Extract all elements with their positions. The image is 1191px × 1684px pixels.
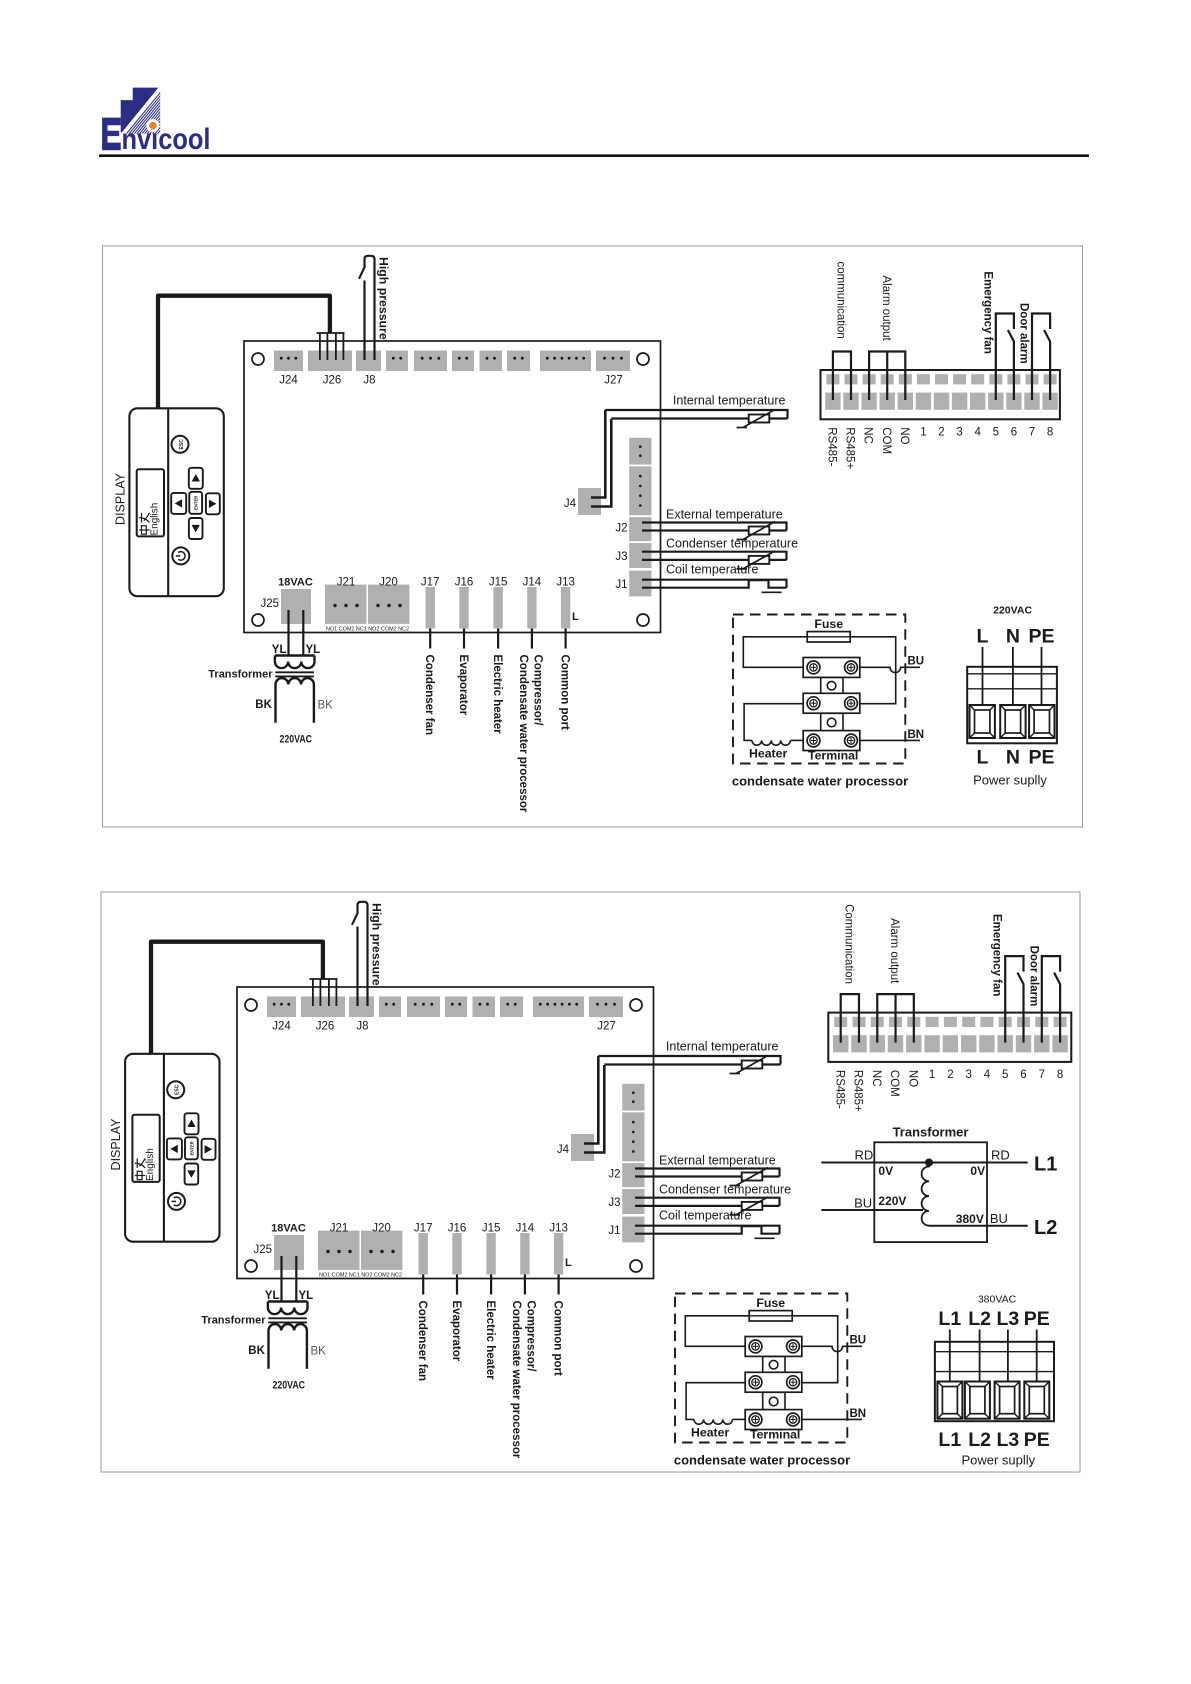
heater coil: [752, 740, 790, 745]
terminal column 9 pads: [980, 1017, 993, 1027]
svg-text:Emergency fan: Emergency fan: [991, 914, 1003, 996]
svg-text:Heater: Heater: [691, 1426, 729, 1440]
wire fuse-right down: [792, 1316, 838, 1383]
connector J4: [571, 1134, 594, 1161]
J17 stub wire: [422, 1275, 424, 1295]
svg-text:Condenser fan: Condenser fan: [423, 655, 435, 736]
link block 2: [821, 713, 843, 731]
power button: [168, 1193, 185, 1210]
svg-text:J27: J27: [597, 1021, 616, 1033]
svg-text:NO1 COM2 NC1 NO2 COM2 NC2: NO1 COM2 NC1 NO2 COM2 NC2: [319, 1273, 402, 1279]
svg-text:2: 2: [947, 1069, 953, 1081]
svg-text:NO1 COM2 NC1 NO2 COM2 NC2: NO1 COM2 NC1 NO2 COM2 NC2: [326, 627, 409, 633]
terminal column 5 pads: [907, 1017, 920, 1027]
J25 wires to transformer: [280, 1256, 282, 1302]
svg-text:1: 1: [920, 427, 926, 439]
Alarm output bracket: [877, 994, 914, 1043]
wire row2-left to heater: [744, 704, 803, 741]
communication bracket: [833, 352, 851, 401]
connector J16: [459, 587, 468, 629]
svg-text:BN: BN: [908, 729, 925, 741]
svg-text:External temperature: External temperature: [666, 507, 783, 521]
connector J26: [308, 351, 352, 372]
screen text 中文 English: [135, 1158, 145, 1179]
communication bracket: [841, 994, 859, 1043]
svg-text:External temperature: External temperature: [659, 1153, 776, 1167]
svg-text:Condenser temperature: Condenser temperature: [659, 1183, 791, 1197]
svg-text:4: 4: [984, 1069, 991, 1081]
controller PCB board: [237, 987, 654, 1279]
connector conn: [407, 997, 440, 1018]
svg-text:J21: J21: [330, 1223, 349, 1235]
svg-text:condensate water processor: condensate water processor: [732, 774, 908, 789]
svg-text:Condenser fan: Condenser fan: [416, 1301, 428, 1382]
terminal column 10 pads: [989, 374, 1002, 384]
svg-text:L2: L2: [1034, 1217, 1057, 1239]
terminal column 12 pads: [1035, 1017, 1048, 1027]
right connector strip: [629, 438, 651, 465]
condensate water processor dashed box: [675, 1294, 847, 1443]
connector J20: [368, 585, 409, 624]
Envicool logo: [102, 88, 210, 156]
terminal column 7 pads: [944, 1017, 957, 1027]
terminal column 8 pads: [962, 1017, 975, 1027]
svg-text:L1: L1: [938, 1429, 961, 1451]
terminal column 7 pads: [935, 374, 948, 384]
External temperature sensor loop: [635, 1169, 780, 1177]
connector J27: [589, 997, 623, 1018]
terminal column 3 pads: [863, 374, 876, 384]
svg-text:L2: L2: [968, 1308, 991, 1330]
svg-text:6: 6: [1020, 1069, 1026, 1081]
svg-text:Evaporator: Evaporator: [457, 655, 469, 716]
terminal column 9 pads: [971, 374, 984, 384]
terminal column 6 pads: [926, 1017, 939, 1027]
svg-text:NO: NO: [906, 1070, 918, 1087]
svg-text:DISPLAY: DISPLAY: [109, 1118, 123, 1171]
up button: [189, 468, 203, 489]
display cable: [158, 296, 330, 410]
svg-text:3: 3: [965, 1069, 971, 1081]
terminal column 2 pads: [845, 374, 858, 384]
svg-text:English: English: [145, 1148, 156, 1181]
link block 1: [763, 1356, 785, 1372]
high pressure switch: [359, 256, 375, 360]
svg-text:J20: J20: [379, 577, 398, 589]
left button: [171, 493, 186, 514]
terminal row 2: [745, 1372, 802, 1392]
svg-text:Transformer: Transformer: [208, 669, 273, 681]
svg-text:J8: J8: [363, 375, 375, 387]
terminal cages: [970, 705, 995, 738]
Internal temperature sensor loop: [598, 1056, 780, 1065]
Coil temperature sensor loop: [642, 580, 787, 588]
svg-text:L: L: [572, 611, 579, 623]
L2 wire 380V: [929, 1225, 1028, 1227]
svg-text:RS485+: RS485+: [852, 1070, 864, 1112]
connector J8: [349, 997, 374, 1018]
J17 stub wire: [429, 629, 431, 649]
svg-text:18VAC: 18VAC: [278, 577, 313, 589]
svg-text:220VAC: 220VAC: [280, 734, 313, 746]
svg-text:PE: PE: [1024, 1308, 1050, 1330]
svg-text:5: 5: [993, 427, 999, 439]
connector J13: [561, 587, 570, 629]
svg-text:L1: L1: [1034, 1154, 1057, 1176]
svg-text:condensate water processor: condensate water processor: [674, 1453, 850, 1468]
svg-text:BU: BU: [908, 656, 925, 668]
svg-text:Common port: Common port: [558, 655, 570, 731]
svg-text:Fuse: Fuse: [756, 1296, 785, 1310]
svg-text:380VAC: 380VAC: [978, 1294, 1017, 1306]
svg-text:RD: RD: [991, 1148, 1010, 1163]
svg-text:ENTER: ENTER: [189, 1141, 194, 1155]
connector conn: [473, 997, 496, 1018]
terminal row 3: [803, 731, 860, 751]
up button: [185, 1113, 199, 1134]
connector conn: [500, 997, 523, 1018]
right connector strip: [622, 1084, 644, 1111]
down button: [185, 1164, 199, 1185]
svg-text:Power suplly: Power suplly: [973, 773, 1047, 788]
connector J15: [486, 1233, 495, 1275]
svg-text:ESC: ESC: [175, 1084, 181, 1095]
terminal column 4 pads: [881, 374, 894, 384]
svg-text:English: English: [150, 503, 161, 536]
connector conn: [445, 997, 467, 1018]
svg-text:J2: J2: [608, 1169, 620, 1181]
wire fuse-left to terminal row1: [685, 1316, 749, 1347]
svg-text:Electric heater: Electric heater: [491, 655, 503, 735]
svg-text:Condenser temperature: Condenser temperature: [666, 537, 798, 551]
connector J4: [578, 488, 601, 515]
winding coil: [922, 1163, 929, 1226]
svg-text:J25: J25: [253, 1244, 272, 1256]
svg-text:J24: J24: [272, 1021, 291, 1033]
svg-text:L: L: [977, 626, 989, 648]
BN wire: [860, 739, 920, 741]
BU wire 220V: [821, 1209, 923, 1211]
connector conn: [414, 351, 447, 372]
connector conn: [533, 997, 584, 1018]
thermistor symbol: [749, 415, 770, 423]
wire fuse-right down: [850, 637, 896, 704]
svg-text:YL: YL: [272, 644, 287, 656]
thermistor symbol: [742, 1061, 763, 1069]
svg-text:BK: BK: [318, 700, 334, 712]
Condenser temperature sensor loop: [635, 1198, 780, 1206]
svg-text:J17: J17: [421, 577, 440, 589]
connector J17: [426, 587, 435, 629]
Door alarm bracket with switch: [1032, 314, 1050, 401]
terminal column 1 pads: [826, 374, 839, 384]
svg-text:J4: J4: [557, 1144, 570, 1156]
connector J25: [281, 589, 311, 624]
svg-text:Fuse: Fuse: [814, 617, 843, 631]
svg-text:Alarm output: Alarm output: [888, 918, 900, 984]
power button: [172, 547, 189, 564]
L1 wire: [821, 1162, 1027, 1164]
svg-text:ENTER: ENTER: [194, 496, 199, 510]
svg-text:communication: communication: [835, 262, 847, 339]
svg-text:BU: BU: [850, 1335, 867, 1347]
J26 ribbon comb: [310, 978, 338, 980]
svg-text:J24: J24: [279, 375, 298, 387]
J14 stub wire: [524, 1275, 526, 1295]
link block 2: [763, 1392, 785, 1410]
svg-text:J25: J25: [260, 598, 279, 610]
svg-text:2: 2: [938, 427, 944, 439]
svg-text:L: L: [977, 747, 989, 769]
svg-text:J16: J16: [455, 577, 474, 589]
J14 stub wire: [531, 629, 533, 649]
svg-text:J14: J14: [523, 577, 542, 589]
svg-text:380V: 380V: [956, 1212, 984, 1226]
svg-text:BU: BU: [990, 1211, 1008, 1226]
center tap dot: [925, 1159, 933, 1167]
svg-text:L3: L3: [997, 1308, 1020, 1330]
svg-text:Compressor/: Compressor/: [525, 1301, 537, 1373]
svg-text:18VAC: 18VAC: [271, 1223, 306, 1235]
svg-text:220V: 220V: [878, 1194, 906, 1208]
mounting holes: [252, 353, 264, 365]
svg-text:N: N: [1006, 747, 1020, 769]
screen text 中文 English: [139, 513, 149, 534]
svg-text:1: 1: [929, 1069, 935, 1081]
svg-text:COM: COM: [888, 1070, 900, 1097]
connector J14: [520, 1233, 529, 1275]
ESC button: [167, 1081, 184, 1098]
transformer secondary winding: [269, 1324, 307, 1369]
svg-text:3: 3: [956, 427, 962, 439]
terminal row 2: [803, 693, 860, 713]
connector conn: [480, 351, 503, 372]
svg-text:Coil temperature: Coil temperature: [666, 563, 758, 577]
terminal column 4 pads: [889, 1017, 902, 1027]
svg-text:Common port: Common port: [551, 1301, 563, 1377]
svg-text:NC: NC: [862, 427, 874, 444]
Coil temperature sensor loop: [635, 1226, 780, 1234]
External temperature sensor loop: [642, 523, 787, 531]
svg-text:COM: COM: [880, 427, 892, 454]
svg-text:N: N: [1006, 626, 1020, 648]
connector J26: [301, 997, 345, 1018]
svg-text:BN: BN: [850, 1408, 867, 1420]
svg-text:Door alarm: Door alarm: [1027, 946, 1039, 1007]
svg-text:Coil temperature: Coil temperature: [659, 1209, 751, 1223]
svg-text:Terminal: Terminal: [808, 749, 858, 763]
J25 wires to transformer: [287, 610, 289, 656]
svg-text:Terminal: Terminal: [750, 1428, 800, 1442]
display cable: [151, 942, 323, 1056]
svg-text:8: 8: [1047, 427, 1053, 439]
wire fuse-left to terminal row1: [743, 637, 807, 668]
svg-text:J26: J26: [316, 1021, 335, 1033]
terminal row 3: [745, 1410, 802, 1430]
connector J21: [325, 585, 367, 624]
J4 wires: [584, 1056, 598, 1144]
down button: [189, 518, 203, 539]
svg-text:J1: J1: [615, 579, 627, 591]
supply wires: [949, 1330, 951, 1383]
svg-text:5: 5: [1002, 1069, 1008, 1081]
svg-text:J13: J13: [556, 577, 575, 589]
transformer core: [275, 671, 314, 673]
svg-text:8: 8: [1057, 1069, 1063, 1081]
svg-text:J16: J16: [448, 1223, 467, 1235]
svg-text:Alarm output: Alarm output: [880, 276, 892, 342]
svg-text:YL: YL: [306, 644, 321, 656]
svg-text:BK: BK: [311, 1346, 327, 1358]
svg-text:Communication: Communication: [843, 904, 855, 984]
svg-text:J21: J21: [337, 577, 356, 589]
svg-text:PE: PE: [1024, 1429, 1050, 1451]
right button: [206, 493, 220, 514]
svg-text:Internal temperature: Internal temperature: [666, 1039, 779, 1053]
IO terminal block: [821, 370, 1060, 419]
svg-text:BU: BU: [854, 1196, 872, 1211]
terminal row 1: [803, 658, 860, 678]
DISPLAY handset: [125, 1054, 219, 1242]
thermistor symbol: [742, 1173, 763, 1181]
Alarm output bracket: [869, 352, 905, 401]
transformer primary winding: [275, 654, 315, 656]
left button: [167, 1138, 182, 1159]
svg-text:7: 7: [1029, 427, 1035, 439]
svg-text:J14: J14: [516, 1223, 535, 1235]
thermistor symbol: [749, 556, 770, 564]
svg-text:BK: BK: [248, 1345, 265, 1357]
connector J8: [356, 351, 381, 372]
svg-text:Heater: Heater: [749, 747, 787, 761]
svg-text:J15: J15: [489, 577, 508, 589]
Door alarm bracket with switch: [1042, 956, 1060, 1043]
svg-text:NO: NO: [898, 427, 910, 444]
transformer primary winding: [268, 1300, 308, 1302]
svg-text:Door alarm: Door alarm: [1018, 303, 1030, 364]
svg-text:J3: J3: [608, 1197, 620, 1209]
svg-text:DISPLAY: DISPLAY: [114, 472, 128, 525]
connector J13: [554, 1233, 563, 1275]
thermistor symbol: [749, 527, 770, 535]
terminal column 13 pads: [1054, 1017, 1067, 1027]
svg-text:PE: PE: [1028, 626, 1054, 648]
IO terminal block: [828, 1013, 1071, 1062]
diagram 2 frame: [101, 892, 1080, 1472]
svg-text:J27: J27: [604, 375, 623, 387]
J16 stub wire: [463, 629, 465, 649]
svg-text:YL: YL: [299, 1290, 314, 1302]
right button: [202, 1139, 216, 1160]
header rule: [99, 154, 1089, 157]
svg-text:High pressure: High pressure: [370, 903, 384, 986]
thermistor symbol: [742, 1202, 763, 1210]
svg-text:220VAC: 220VAC: [993, 605, 1032, 617]
connector J24: [274, 351, 303, 372]
svg-text:J17: J17: [414, 1223, 433, 1235]
terminal column 13 pads: [1044, 374, 1057, 384]
fuse element: [749, 1311, 792, 1321]
terminal column 10 pads: [999, 1017, 1012, 1027]
connector J16: [452, 1233, 461, 1275]
svg-text:L2: L2: [968, 1429, 991, 1451]
fuse element: [807, 632, 850, 642]
svg-text:NC: NC: [870, 1070, 882, 1087]
svg-text:RS485-: RS485-: [826, 427, 838, 466]
connector J15: [493, 587, 502, 629]
ESC button: [172, 436, 189, 453]
svg-text:J20: J20: [372, 1223, 391, 1235]
terminal row 1: [745, 1337, 802, 1357]
link block 1: [821, 677, 843, 693]
wire heater to row3: [733, 1418, 746, 1420]
connector conn: [379, 997, 401, 1018]
terminal column 1 pads: [834, 1017, 847, 1027]
connector J25: [274, 1235, 304, 1270]
terminal column 2 pads: [853, 1017, 866, 1027]
Condenser temperature sensor loop: [642, 552, 787, 560]
connector J14: [527, 587, 536, 629]
terminal cages: [937, 1382, 962, 1419]
supply wires: [982, 647, 984, 706]
LCD screen: [132, 1115, 159, 1182]
DISPLAY handset: [129, 408, 223, 596]
svg-text:L1: L1: [938, 1308, 961, 1330]
svg-text:J8: J8: [356, 1021, 368, 1033]
svg-text:6: 6: [1011, 427, 1017, 439]
svg-text:PE: PE: [1028, 747, 1054, 769]
LCD screen: [137, 469, 164, 536]
svg-text:0V: 0V: [970, 1164, 985, 1178]
J15 stub wire: [490, 1275, 492, 1295]
terminal column 5 pads: [899, 374, 912, 384]
svg-text:J2: J2: [615, 523, 627, 535]
terminal column 8 pads: [953, 374, 966, 384]
svg-text:0V: 0V: [878, 1164, 893, 1178]
svg-text:RS485+: RS485+: [844, 427, 856, 469]
svg-text:ESC: ESC: [179, 439, 185, 450]
mounting holes: [245, 999, 257, 1011]
svg-text:Emergency fan: Emergency fan: [981, 271, 993, 353]
Emergency fan bracket with switch: [996, 314, 1014, 401]
svg-text:Condensate water processor: Condensate water processor: [510, 1301, 522, 1459]
condensate water processor dashed box: [733, 615, 905, 764]
connector conn: [507, 351, 530, 372]
wire heater to row3: [791, 739, 804, 741]
connector J20: [361, 1231, 402, 1270]
transformer core: [268, 1317, 307, 1319]
svg-text:J3: J3: [615, 551, 627, 563]
svg-text:4: 4: [974, 427, 981, 439]
svg-text:Compressor/: Compressor/: [532, 655, 544, 727]
terminal column 12 pads: [1026, 374, 1039, 384]
terminal block body: [967, 667, 1057, 744]
svg-text:High pressure: High pressure: [377, 257, 391, 340]
J13 stub wire: [557, 1275, 559, 1295]
svg-text:BK: BK: [255, 699, 272, 711]
svg-text:J15: J15: [482, 1223, 501, 1235]
svg-text:J13: J13: [549, 1223, 568, 1235]
connector J24: [267, 997, 296, 1018]
J16 stub wire: [456, 1275, 458, 1295]
Emergency fan bracket with switch: [1005, 956, 1023, 1043]
svg-text:Electric heater: Electric heater: [484, 1301, 496, 1381]
BN wire: [802, 1418, 862, 1420]
svg-text:Power suplly: Power suplly: [961, 1453, 1035, 1468]
ENTER button: [185, 1137, 198, 1159]
svg-text:J1: J1: [608, 1225, 620, 1237]
Internal temperature sensor loop: [605, 410, 787, 419]
